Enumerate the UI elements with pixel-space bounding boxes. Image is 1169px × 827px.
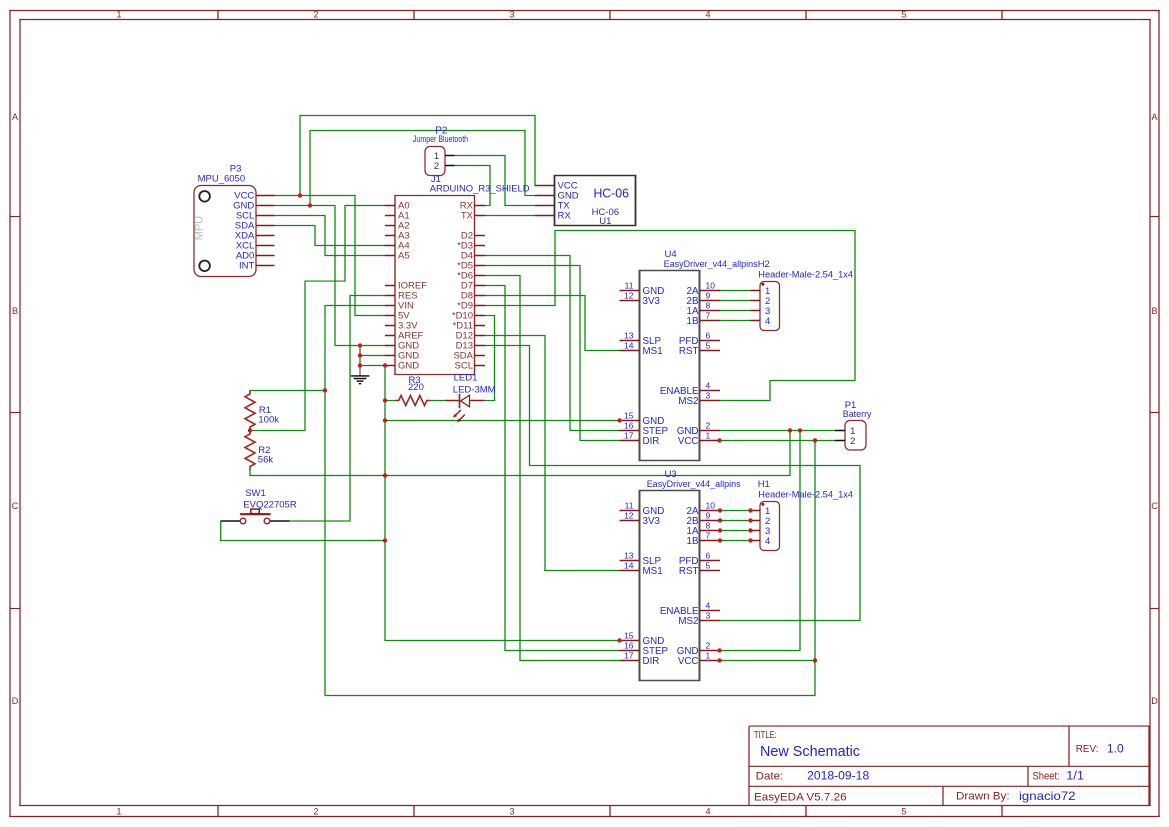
- P3 pin SDA: [256, 225, 275, 227]
- svg-text:EasyEDA V5.7.26: EasyEDA V5.7.26: [754, 792, 847, 804]
- wire: [580, 440, 621, 442]
- U3 pin 14 MS1: [620, 570, 640, 572]
- U3 pin 13 SLP: [620, 560, 640, 562]
- svg-text:16: 16: [624, 421, 634, 431]
- svg-text:A: A: [1151, 112, 1157, 122]
- wire: [579, 265, 581, 441]
- svg-text:SW1: SW1: [245, 488, 266, 499]
- svg-text:1B: 1B: [687, 536, 699, 547]
- wire: [489, 165, 491, 206]
- P3 pin GND: [256, 205, 275, 207]
- H1 pin 1: [751, 510, 761, 512]
- svg-text:EasyDriver_v44_allpins: EasyDriver_v44_allpins: [647, 479, 741, 490]
- svg-text:9: 9: [706, 291, 711, 301]
- resistor R3 220: [395, 375, 430, 406]
- junction: [383, 363, 387, 367]
- U4 pin 8 1A: [700, 310, 721, 312]
- wire: [799, 430, 801, 651]
- wire: [250, 475, 791, 477]
- ground symbol: [351, 366, 370, 384]
- wire: [484, 205, 491, 207]
- svg-text:4: 4: [705, 807, 710, 817]
- svg-text:1/1: 1/1: [1066, 771, 1084, 783]
- svg-text:LED1: LED1: [454, 373, 478, 384]
- wire: [354, 195, 356, 316]
- svg-text:17: 17: [624, 651, 634, 661]
- J1 pin A5: [385, 255, 395, 257]
- J1 pin A2: [385, 225, 395, 227]
- svg-text:RX: RX: [558, 211, 572, 222]
- wire: [300, 115, 536, 117]
- J1 pin RES: [385, 295, 395, 297]
- junction: [748, 528, 752, 532]
- svg-text:2: 2: [706, 421, 711, 431]
- U4 pin 15 GND: [620, 420, 640, 422]
- wire: [720, 310, 752, 312]
- svg-text:HC-06: HC-06: [593, 187, 629, 201]
- svg-text:Jumper Bluetooth: Jumper Bluetooth: [413, 134, 468, 144]
- wire: [314, 225, 316, 246]
- svg-text:7: 7: [706, 311, 711, 321]
- connector P3 MPU_6050: [194, 164, 275, 277]
- svg-text:4: 4: [765, 316, 770, 327]
- wire: [454, 165, 491, 167]
- J1 pin SCL: [475, 365, 485, 367]
- svg-text:5: 5: [706, 561, 711, 571]
- P1 pin 2: [835, 440, 845, 442]
- svg-text:5: 5: [901, 807, 906, 817]
- wire: [555, 230, 856, 232]
- H2 pin 3: [751, 310, 761, 312]
- junction: [617, 418, 621, 422]
- wire: [484, 295, 586, 297]
- wire: [274, 215, 326, 217]
- wire: [719, 440, 835, 442]
- svg-text:DIR: DIR: [643, 436, 660, 447]
- svg-text:13: 13: [624, 331, 634, 341]
- svg-text:2: 2: [706, 641, 711, 651]
- SW1 pin right: [270, 520, 290, 522]
- U4 pin 1 VCC: [700, 440, 721, 442]
- SW1 pin left: [221, 520, 241, 522]
- IC U4 EasyDriver_v44_allpins: [620, 249, 758, 460]
- U3 pin 9 2B: [700, 520, 721, 522]
- junction: [798, 428, 802, 432]
- svg-text:7: 7: [706, 531, 711, 541]
- svg-text:MPU_6050: MPU_6050: [198, 174, 246, 185]
- J1 pin *D10: [475, 315, 485, 317]
- svg-text:3: 3: [509, 10, 514, 20]
- svg-text:Date:: Date:: [756, 771, 784, 783]
- svg-text:3: 3: [706, 391, 711, 401]
- svg-text:6: 6: [706, 551, 711, 561]
- U1 pin GND: [535, 195, 555, 197]
- U4 pin 11 GND: [620, 290, 640, 292]
- H1 pin 3: [751, 530, 761, 532]
- wire: [504, 155, 506, 206]
- svg-text:LED-3MM: LED-3MM: [453, 385, 496, 396]
- junction: [718, 538, 722, 542]
- wire: [569, 255, 571, 431]
- svg-text:MS1: MS1: [643, 346, 663, 357]
- P3 pin VCC: [256, 195, 275, 197]
- wire: [384, 365, 386, 641]
- J1 pin 3.3V: [385, 325, 395, 327]
- U3 pin 12 3V3: [620, 520, 640, 522]
- wire: [719, 650, 800, 652]
- H2 pin 2: [751, 300, 761, 302]
- svg-text:4: 4: [765, 536, 770, 547]
- svg-text:3: 3: [509, 807, 514, 817]
- U3 pin 5 RST: [700, 570, 721, 572]
- U3 pin 10 2A: [700, 510, 721, 512]
- J1 pin A3: [385, 235, 395, 237]
- wire: [304, 281, 306, 431]
- svg-text:TX: TX: [461, 211, 474, 222]
- U3 pin 8 1A: [700, 530, 721, 532]
- wire: [585, 350, 621, 352]
- svg-text:1: 1: [116, 807, 121, 817]
- wire: [544, 570, 620, 572]
- LED LED1 LED-3MM: [446, 373, 496, 423]
- wire: [720, 530, 752, 532]
- svg-text:D: D: [1151, 696, 1158, 706]
- U4 pin 5 RST: [700, 350, 721, 352]
- wire: [274, 205, 336, 207]
- wire: [770, 380, 856, 382]
- svg-text:2: 2: [313, 10, 318, 20]
- wire: [525, 195, 536, 197]
- J1 pin D8: [475, 295, 485, 297]
- resistor R1 100k: [245, 391, 279, 431]
- connector H2 Header-Male-2.54_1x4: [751, 259, 854, 330]
- wire: [484, 400, 495, 402]
- svg-text:C: C: [12, 501, 19, 511]
- svg-text:100k: 100k: [258, 415, 279, 426]
- wire: [360, 355, 386, 357]
- U4 pin 4 ENABLE: [700, 390, 721, 392]
- junction: [383, 398, 387, 402]
- wire: [769, 380, 771, 401]
- wire: [519, 275, 521, 661]
- wire: [344, 205, 346, 281]
- U4 pin 9 2B: [700, 300, 721, 302]
- wire: [544, 335, 546, 571]
- svg-text:3V3: 3V3: [643, 516, 661, 527]
- P3 pin AD0: [256, 255, 275, 257]
- wire: [334, 205, 336, 346]
- svg-text:1: 1: [706, 431, 711, 441]
- H2 pin 1: [751, 290, 761, 292]
- wire: [305, 280, 346, 282]
- svg-text:ARDUINO_R3_SHIELD: ARDUINO_R3_SHIELD: [430, 184, 530, 195]
- svg-text:3V3: 3V3: [643, 296, 661, 307]
- wire: [289, 520, 351, 522]
- svg-text:RST: RST: [679, 346, 699, 357]
- wire: [324, 215, 326, 256]
- wire: [250, 430, 306, 432]
- wire: [505, 650, 621, 652]
- svg-text:8: 8: [706, 521, 711, 531]
- svg-text:10: 10: [706, 281, 716, 291]
- P3 pin XCL: [256, 245, 275, 247]
- svg-text:14: 14: [624, 561, 634, 571]
- J1 pin *D3: [475, 245, 485, 247]
- wire: [484, 275, 521, 277]
- wire: [814, 440, 816, 696]
- P2 pin 1: [445, 155, 455, 157]
- wire: [719, 430, 835, 432]
- wire: [250, 390, 326, 392]
- junction: [813, 438, 817, 442]
- svg-text:11: 11: [625, 281, 634, 291]
- svg-text:Sheet:: Sheet:: [1033, 771, 1060, 783]
- wire: [484, 265, 581, 267]
- svg-text:4: 4: [706, 381, 711, 391]
- wire: [484, 215, 536, 217]
- wire: [504, 285, 506, 651]
- svg-text:MS1: MS1: [643, 566, 663, 577]
- svg-text:SCL: SCL: [455, 361, 473, 372]
- U4 pin 13 SLP: [620, 340, 640, 342]
- junction: [298, 193, 302, 197]
- wire: [530, 465, 861, 467]
- wire: [520, 660, 621, 662]
- wire: [385, 640, 621, 642]
- IC J1 ARDUINO_R3_SHIELD: [385, 174, 530, 375]
- svg-text:1: 1: [706, 651, 711, 661]
- svg-text:REV:: REV:: [1076, 743, 1099, 755]
- wire: [720, 540, 752, 542]
- wire: [274, 195, 356, 197]
- U3 pin 2 GND: [700, 650, 721, 652]
- J1 pin *D6: [475, 275, 485, 277]
- wire: [220, 521, 222, 541]
- junction: [358, 363, 362, 367]
- wire: [720, 300, 752, 302]
- switch SW1 EVQ22705R: [221, 488, 297, 524]
- svg-text:16: 16: [624, 641, 634, 651]
- junction: [358, 343, 362, 347]
- svg-text:9: 9: [706, 511, 711, 521]
- wire: [720, 520, 752, 522]
- wire: [324, 305, 326, 696]
- J1 pin GND: [385, 345, 395, 347]
- wire: [484, 315, 495, 317]
- wire: [325, 695, 816, 697]
- sheet frame inner border: [19, 19, 1151, 21]
- wire: [310, 130, 526, 132]
- U3 pin 11 GND: [620, 510, 640, 512]
- junction: [717, 438, 721, 442]
- module U1 HC-06: [535, 176, 636, 228]
- wire: [454, 155, 506, 157]
- U1 pin RX: [535, 215, 555, 217]
- junction: [383, 418, 387, 422]
- junction: [717, 658, 721, 662]
- junction: [383, 473, 387, 477]
- J1 pin D7: [475, 285, 485, 287]
- junction: [323, 388, 327, 392]
- wire: [789, 430, 791, 476]
- J1 pin D13: [475, 345, 485, 347]
- J1 pin A4: [385, 245, 395, 247]
- svg-text:B: B: [12, 306, 18, 316]
- svg-text:C: C: [1151, 501, 1158, 511]
- svg-text:Drawn By:: Drawn By:: [956, 791, 1010, 803]
- svg-text:MS2: MS2: [678, 396, 698, 407]
- frame column ticks: [217, 11, 219, 20]
- wire: [385, 420, 621, 422]
- U4 pin 3 MS2: [700, 400, 721, 402]
- wire: [534, 115, 536, 186]
- wire: [350, 295, 386, 297]
- sheet frame outer border: [9, 10, 1160, 12]
- svg-text:ignacio72: ignacio72: [1019, 789, 1076, 803]
- U4 pin 10 2A: [700, 290, 721, 292]
- svg-text:U1: U1: [599, 216, 611, 227]
- wire: [249, 470, 251, 476]
- H2 pin 4: [751, 320, 761, 322]
- U3 pin 16 STEP: [620, 650, 640, 652]
- U3 pin 15 GND: [620, 640, 640, 642]
- wire: [335, 345, 386, 347]
- title block: [749, 726, 1150, 805]
- connector H1 Header-Male-2.54_1x4: [751, 479, 854, 550]
- U4 pin 6 PFD: [700, 340, 721, 342]
- H1 pin 2: [751, 520, 761, 522]
- svg-text:DIR: DIR: [643, 656, 660, 667]
- IC U3 EasyDriver_v44_allpins: [620, 469, 741, 680]
- J1 pin A1: [385, 215, 395, 217]
- J1 pin AREF: [385, 335, 395, 337]
- J1 pin D12: [475, 335, 485, 337]
- svg-text:6: 6: [706, 331, 711, 341]
- svg-text:1B: 1B: [687, 316, 699, 327]
- wire: [524, 130, 526, 196]
- U4 pin 14 MS1: [620, 350, 640, 352]
- svg-text:15: 15: [624, 411, 634, 421]
- U4 pin 17 DIR: [620, 440, 640, 442]
- J1 pin GND: [385, 365, 395, 367]
- junction: [718, 528, 722, 532]
- wire: [484, 255, 571, 257]
- connector P2 Jumper Bluetooth: [413, 126, 468, 176]
- svg-text:5: 5: [901, 10, 906, 20]
- wire: [484, 335, 546, 337]
- J1 pin *D11: [475, 325, 485, 327]
- svg-text:2: 2: [313, 807, 318, 817]
- U4 pin 16 STEP: [620, 430, 640, 432]
- svg-text:12: 12: [624, 291, 634, 301]
- svg-text:10: 10: [706, 501, 716, 511]
- svg-text:A: A: [12, 112, 18, 122]
- svg-text:GND: GND: [398, 361, 419, 372]
- J1 pin D2: [475, 235, 485, 237]
- J1 pin 5V: [385, 315, 395, 317]
- svg-text:1: 1: [116, 10, 121, 20]
- junction: [788, 428, 792, 432]
- svg-text:5: 5: [706, 341, 711, 351]
- junction: [748, 538, 752, 542]
- J1 pin A0: [385, 205, 395, 207]
- wire: [325, 255, 386, 257]
- P3 pin XDA: [256, 235, 275, 237]
- svg-text:A5: A5: [398, 251, 410, 262]
- svg-text:4: 4: [706, 601, 711, 611]
- svg-text:VCC: VCC: [678, 656, 699, 667]
- wire: [355, 315, 386, 317]
- wire: [554, 230, 556, 306]
- J1 pin *D9: [475, 305, 485, 307]
- resistor R2 56k: [245, 431, 273, 471]
- junction: [718, 518, 722, 522]
- wire: [484, 345, 530, 347]
- wire: [359, 345, 361, 366]
- svg-text:13: 13: [624, 551, 634, 561]
- P1 pin 1: [835, 430, 845, 432]
- wire: [494, 315, 496, 401]
- svg-text:2: 2: [850, 436, 855, 447]
- junction: [248, 428, 252, 432]
- svg-text:4: 4: [705, 10, 710, 20]
- wire: [360, 365, 386, 367]
- wire: [325, 305, 386, 307]
- J1 pin *D5: [475, 265, 485, 267]
- svg-text:17: 17: [624, 431, 634, 441]
- wire: [570, 430, 621, 432]
- junction: [617, 638, 621, 642]
- wire: [719, 400, 770, 402]
- svg-text:MS2: MS2: [678, 616, 698, 627]
- wire: [720, 510, 752, 512]
- P3 pin SCL: [256, 215, 275, 217]
- junction: [717, 648, 721, 652]
- wire: [274, 225, 316, 227]
- svg-text:MPU: MPU: [194, 216, 206, 241]
- svg-text:D: D: [12, 696, 19, 706]
- J1 pin IOREF: [385, 285, 395, 287]
- svg-text:VCC: VCC: [678, 436, 699, 447]
- svg-text:TITLE:: TITLE:: [754, 730, 777, 741]
- J1 pin RX: [475, 205, 485, 207]
- U1 pin TX: [535, 205, 555, 207]
- J1 pin D4: [475, 255, 485, 257]
- svg-text:B: B: [1151, 306, 1157, 316]
- svg-text:15: 15: [624, 631, 634, 641]
- svg-text:220: 220: [408, 382, 424, 393]
- svg-text:3: 3: [706, 611, 711, 621]
- J1 pin SDA: [475, 355, 485, 357]
- frame row ticks: [10, 216, 20, 218]
- svg-text:14: 14: [624, 341, 634, 351]
- U3 pin 4 ENABLE: [700, 610, 721, 612]
- junction: [748, 508, 752, 512]
- wire: [345, 205, 386, 207]
- svg-text:INT: INT: [239, 261, 255, 272]
- wire: [299, 115, 301, 196]
- U3 pin 7 1B: [700, 540, 721, 542]
- wire: [315, 245, 386, 247]
- svg-text:2018-09-18: 2018-09-18: [807, 771, 869, 783]
- svg-text:12: 12: [624, 511, 634, 521]
- wire: [484, 305, 556, 307]
- J1 pin GND: [385, 355, 395, 357]
- wire: [584, 295, 586, 351]
- wire: [309, 130, 311, 206]
- junction: [813, 658, 817, 662]
- svg-text:EasyDriver_v44_allpins: EasyDriver_v44_allpins: [664, 259, 758, 270]
